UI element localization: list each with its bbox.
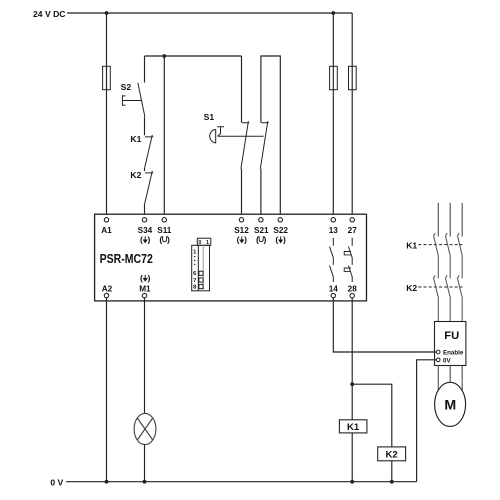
svg-text:(: ( [275, 235, 278, 245]
wire K1 coil to 0V rail [351, 433, 353, 482]
svg-text:FU: FU [444, 330, 459, 342]
wire 0V rail [66, 481, 417, 483]
switch S2 actuator [122, 96, 141, 105]
terminal S21 [259, 218, 263, 222]
svg-text:S2: S2 [121, 82, 132, 92]
FU terminal 0V [436, 358, 440, 362]
sublabel M1 down-arrow [140, 273, 151, 283]
FU terminal Enable [436, 350, 440, 354]
node junction dot 13 column on 24V rail [331, 11, 335, 15]
node junction dot S11 [162, 54, 166, 58]
wire terminal 28 down [351, 298, 353, 420]
wire S11 column [163, 56, 165, 218]
svg-text:K1: K1 [347, 422, 360, 433]
sublabel S21 pulse [256, 235, 267, 245]
coil K1 box [339, 420, 367, 433]
wire FU to motor L2 [449, 366, 451, 383]
switch S2 blade [138, 83, 145, 117]
relay U1 PSR-MC72 box [95, 214, 367, 301]
svg-text:): ) [264, 235, 267, 245]
switch S1 mechanical link [218, 135, 264, 137]
svg-text:M1: M1 [139, 285, 151, 294]
terminal 27 [350, 218, 354, 222]
wire 13 column (rail to terminal 13) [332, 13, 334, 218]
svg-text:): ) [283, 235, 286, 245]
terminal S22 [278, 218, 282, 222]
terminal S11 [162, 218, 166, 222]
contact K2 [145, 171, 154, 203]
contactor K1 dashed link [418, 244, 462, 246]
svg-text:PSR-MC72: PSR-MC72 [100, 251, 153, 266]
wire branch to K2 coil [352, 384, 392, 447]
wire A2 to 0V rail [106, 298, 108, 482]
wire top 24V rail [67, 12, 352, 14]
terminal 28 [350, 293, 354, 297]
motor M [435, 382, 466, 426]
node junction dot K1 on 0V rail [350, 480, 354, 484]
fuse F3 [349, 66, 357, 89]
contactor K1 pole 2 [446, 233, 451, 278]
terminal S34 [142, 218, 146, 222]
wire FU 0V to 0V rail [417, 360, 437, 482]
contactor K1 pole 3 [458, 233, 463, 278]
wire S11 feed horizontal [145, 55, 242, 57]
wire M1 to lamp [144, 298, 146, 414]
wire S21-S22 loop [261, 56, 280, 218]
contact K1 [145, 135, 154, 167]
svg-text:K1: K1 [406, 240, 417, 250]
svg-text:28: 28 [348, 285, 358, 294]
node junction dot coil split [350, 382, 354, 386]
terminal A2 [104, 293, 108, 297]
svg-text:27: 27 [348, 226, 358, 235]
wire S2 top stub [144, 56, 146, 83]
svg-text:0: 0 [198, 240, 201, 246]
terminal S12 [239, 218, 243, 222]
contactor K2 pole 1 [434, 275, 439, 321]
switch S1 actuator plunger [217, 127, 224, 137]
fuse F2 [330, 66, 338, 89]
svg-text:): ) [244, 235, 247, 245]
svg-text:): ) [148, 273, 151, 283]
svg-text:(: ( [159, 235, 162, 245]
terminal M1 [142, 293, 146, 297]
svg-text:K2: K2 [406, 283, 417, 293]
switch S1 pole 1 contact [241, 121, 249, 169]
contactor K2 dashed link [418, 286, 462, 288]
wire S12 top column [241, 56, 243, 123]
svg-text:7: 7 [193, 278, 196, 284]
coil K2 box [378, 447, 406, 461]
wire terminal 14 to FU Enable [333, 298, 436, 352]
svg-text:1: 1 [206, 240, 209, 246]
svg-text:A1: A1 [101, 226, 112, 235]
switch S1 pole 2 contact [260, 121, 268, 169]
svg-text:K2: K2 [385, 450, 397, 461]
svg-text:0V: 0V [443, 357, 451, 364]
node junction dot lamp on 0V rail [143, 480, 147, 484]
svg-text:S1: S1 [204, 112, 215, 122]
svg-text:M: M [444, 398, 456, 414]
dip switch block [192, 238, 211, 291]
three phase line L1 [437, 203, 439, 237]
wire S1 pole1 to S12 [241, 169, 243, 218]
contactor K2 pole 3 [458, 275, 463, 321]
node junction dot A2 on 0V rail [105, 480, 109, 484]
sublabel S11 pulse [159, 235, 170, 245]
switch S1 actuator head [210, 129, 216, 143]
relay internal contact 13-14 [330, 238, 334, 282]
forced-guidance mark lower [344, 268, 351, 271]
node junction dot A1 column on 24V rail [105, 11, 109, 15]
terminal A1 [104, 218, 108, 222]
terminal 14 [331, 293, 335, 297]
svg-text:): ) [148, 235, 151, 245]
svg-text:13: 13 [329, 226, 339, 235]
contactor K2 pole 2 [446, 275, 451, 321]
forced-guidance mark upper [344, 252, 351, 255]
svg-text:(: ( [256, 235, 259, 245]
fuse F1 [103, 66, 111, 89]
lamp cross [137, 418, 152, 440]
wire A1 column [106, 13, 108, 218]
relay internal contact 27-28 [348, 238, 352, 282]
svg-text:(: ( [140, 273, 143, 283]
svg-text:Enable: Enable [443, 349, 464, 356]
contactor K1 pole 1 [434, 233, 439, 278]
svg-text:K1: K1 [130, 134, 141, 144]
wire FU to motor L1 [437, 366, 439, 391]
svg-text:(: ( [237, 235, 240, 245]
terminal 13 [331, 218, 335, 222]
sublabel S22 down-arrow [275, 235, 286, 245]
svg-text:(: ( [140, 235, 143, 245]
wire S2 to K1 [144, 117, 146, 135]
sublabel S12 down-arrow [237, 235, 248, 245]
three phase line L3 [461, 203, 463, 237]
svg-text:K2: K2 [130, 170, 141, 180]
frequency converter FU box [435, 322, 466, 366]
sublabel S34 down-arrow [140, 235, 151, 245]
svg-text:24 V DC: 24 V DC [33, 9, 65, 19]
svg-text:A2: A2 [102, 285, 113, 294]
svg-text:): ) [167, 235, 170, 245]
wire FU to motor L3 [461, 366, 463, 391]
lamp H1 [134, 413, 156, 444]
node junction dot K2 on 0V rail [390, 480, 394, 484]
svg-text:0 V: 0 V [50, 477, 63, 487]
wire K1 to K2 stub [144, 167, 146, 171]
wire K2 coil to 0V rail [391, 461, 393, 482]
wire S1 pole2 to S21 [260, 169, 262, 218]
wire lamp to 0V rail [144, 445, 146, 482]
three phase line L2 [449, 203, 451, 237]
wire K2 to S34 [144, 203, 146, 217]
svg-text:14: 14 [329, 285, 339, 294]
wire 27 column (rail corner to terminal 27) [351, 13, 353, 218]
